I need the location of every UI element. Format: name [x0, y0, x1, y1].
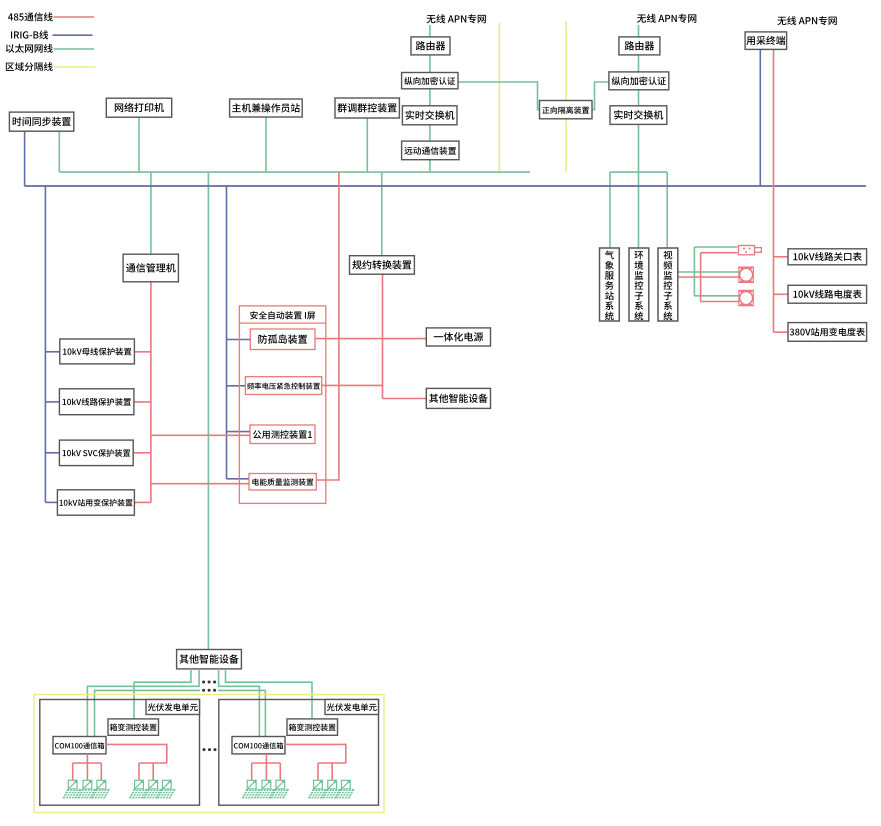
wire red 防孤岛装置 to rail — [315, 338, 383, 340]
wire green crossing line left — [95, 690, 201, 736]
box 10kV站用变保护装置 — [57, 490, 134, 515]
wire red rail to 一体化电源 — [383, 338, 427, 340]
wire red branch to 380V站用变电度表 — [774, 331, 789, 333]
wire red 通信管理机 rail — [150, 282, 152, 503]
wire red drop to inverter 1-1 — [72, 763, 74, 780]
wire green drop to 视频监控子系统 — [666, 172, 668, 248]
box 气象服务站系统 (vertical text) — [600, 248, 620, 321]
box 380V站用变电度表 — [788, 323, 867, 342]
ellipsis dots below 其他智能设备 row1 — [202, 681, 216, 684]
wire green drop to 气象服务站系统 — [609, 172, 611, 248]
wire blue branch to 防孤岛装置 — [227, 339, 251, 341]
icon PV inverter 1-1 — [63, 780, 82, 798]
wire red COM100-2 to inverter group2 — [285, 744, 346, 763]
zone divider yellow vertical 2 — [565, 21, 567, 172]
wire blue drop from 用采终端 — [759, 49, 761, 186]
label 无线APN专网 column1 — [427, 14, 486, 23]
ellipsis dots below 其他智能设备 row2 — [202, 689, 216, 692]
wire red inverter group2 header 2 — [318, 762, 346, 764]
icon PV inverter 2-5 — [322, 780, 341, 798]
panel 安全自动装置I屏 outer box — [239, 306, 325, 504]
box 实时交换机 column1 — [402, 106, 457, 125]
legend line IRIG-B (blue) — [53, 34, 93, 36]
label 无线APN专网 metering — [777, 16, 836, 25]
box 远动通信装置 — [402, 141, 459, 160]
icon dome camera 2 (red) — [739, 290, 753, 305]
box 网络打印机 — [106, 98, 171, 117]
zone divider yellow vertical 1 — [498, 23, 500, 172]
box 实时交换机 column2 — [610, 106, 667, 125]
wire green bus right segment — [610, 171, 667, 173]
box 通信管理机 — [123, 254, 178, 282]
wire red drop to inverter 1-5 — [152, 763, 154, 780]
legend text 485通信线 — [8, 12, 53, 21]
label 无线APN专网 column2 — [637, 14, 696, 23]
box COM100通信箱 1 — [53, 737, 106, 754]
wire green fan stub1 — [134, 669, 191, 719]
wire green fan stub3 — [219, 669, 260, 737]
wire green APN1 router to 纵向加密认证 — [429, 55, 431, 73]
wire red branch to 10kV线路保护装置 — [134, 401, 151, 403]
box 其他智能设备 right — [426, 388, 490, 408]
wire red drop to inverter 1-3 — [100, 763, 102, 780]
box 公用测控装置1 — [250, 425, 315, 444]
wire blue branch to 公用测控装置1 — [227, 431, 251, 433]
wire red 视频监控 to dome cam 1 — [679, 276, 739, 278]
box 箱变测控装置 2 — [287, 719, 338, 735]
legend text 区域分隔线 — [6, 62, 53, 71]
wire red to dome cam 2 — [701, 301, 739, 303]
box 纵向加密认证 column2 — [609, 72, 669, 90]
box 一体化电源 — [426, 328, 490, 346]
box 10kV SVC保护装置 — [59, 440, 133, 466]
wire red branch to 10kV母线保护装置 — [134, 351, 151, 353]
wire green long drop to 其他智能设备 — [207, 172, 209, 649]
wire red rail to 其他智能设备(right) — [383, 398, 427, 400]
wire blue drop from 时间同步装置 — [24, 131, 26, 186]
wire red COM100-1 to inverter group2 — [106, 744, 167, 763]
wire red COM100-2 to inverter group1 — [265, 754, 267, 763]
wire green bus left segment — [59, 171, 530, 173]
wire blue branch to 10kV线路保护装置 — [45, 401, 59, 403]
wire red 频率电压紧急控制装置 to rail — [322, 384, 383, 386]
wire green 纵向加密认证1 to 正向隔离装置 — [458, 82, 540, 110]
wire red branch to 10kV SVC保护装置 — [133, 452, 151, 454]
box 10kV母线保护装置 — [60, 339, 135, 364]
wire green drop from 群调群控装置 — [366, 118, 368, 172]
icon PV inverter 1-3 — [91, 780, 110, 798]
icon PV inverter 1-5 — [143, 780, 162, 798]
wire blue branch to 10kV母线保护装置 — [45, 351, 59, 353]
wire green crossing line right — [218, 690, 265, 736]
wire red branch to 10kV站用变保护装置 — [134, 501, 151, 503]
wire blue branch to 电能质量监测装置 — [227, 478, 250, 480]
icon PV inverter 2-6 — [336, 780, 355, 798]
wire red 规约转换装置 rail — [382, 274, 384, 398]
box 规约转换装置 — [350, 256, 415, 275]
box 光伏发电单元 unit2 — [219, 700, 379, 806]
wire green APN1 实时交换机 to 远动通信装置 — [429, 125, 431, 141]
icon PV inverter 1-2 — [77, 780, 96, 798]
wire red drop from bus to 电能质量监测装置 right — [316, 172, 339, 480]
wire green drop from 主机兼操作员站 — [265, 118, 267, 173]
box 箱变测控装置 1 — [108, 719, 159, 735]
wire red drop to inverter 2-5 — [331, 763, 333, 780]
wire red drop to inverter 2-1 — [251, 763, 253, 780]
yellow zone enclosure box — [34, 695, 384, 813]
box 其他智能设备 bottom — [177, 650, 242, 669]
icon PV inverter 1-4 — [129, 780, 148, 798]
wire green APN1 antenna to router — [429, 25, 431, 37]
box 防孤岛装置 — [250, 329, 315, 350]
box 光伏发电单元 unit1 — [40, 700, 200, 806]
legend line 485 (red) — [54, 16, 95, 18]
box 主机兼操作员站 — [230, 99, 303, 117]
box 纵向加密认证 column1 — [402, 73, 458, 89]
wire red drop to inverter 2-4 — [317, 763, 319, 780]
box 10kV线路关口表 — [788, 249, 867, 265]
box 路由器 column1 — [411, 37, 450, 55]
wire red branch to 电能质量监测装置 — [151, 483, 249, 485]
wire green to webcam — [694, 246, 737, 248]
box 群调群控装置 — [335, 98, 399, 118]
box 正向隔离装置 — [540, 101, 593, 119]
wire red branch to 公用测控装置1 — [151, 434, 250, 436]
legend line zone divider (yellow) — [54, 66, 96, 68]
icon PV inverter 1-6 — [157, 780, 176, 798]
icon webcam (red) — [739, 246, 762, 255]
wire red to webcam — [701, 252, 738, 254]
box 10kV线路保护装置 — [59, 389, 133, 415]
wire red inverter group1 header 2 — [252, 762, 281, 764]
ellipsis dots between PV units — [203, 748, 217, 751]
wire blue bus — [25, 185, 866, 187]
wire green drop from 时间同步装置 — [58, 131, 60, 172]
wire green camera riser — [693, 247, 695, 296]
wire green drop from 远动通信装置 — [429, 160, 431, 172]
icon PV inverter 2-1 — [242, 780, 261, 798]
box 频率电压紧急控制装置 — [245, 377, 321, 395]
wire red COM100-1 to inverter group1 — [86, 754, 88, 763]
icon PV inverter 2-2 — [256, 780, 275, 798]
wire green fan stub4 — [226, 669, 313, 718]
box 10kV线路电度表 — [788, 285, 867, 303]
legend line ethernet (green) — [54, 48, 95, 50]
wire blue branch to 频率电压紧急控制装置 — [227, 385, 246, 387]
wire blue mid rail — [226, 186, 228, 479]
box 用采终端 — [745, 32, 787, 50]
legend text 以太网网线 — [6, 44, 53, 53]
wire red drop to inverter 2-2 — [265, 763, 267, 780]
wire green APN2 antenna to router — [638, 25, 640, 37]
label box 光伏发电单元 2 — [325, 700, 379, 715]
box 视频监控子系统 (vertical text) — [658, 248, 678, 321]
wire red branch to 10kV线路关口表 — [774, 256, 789, 258]
wire green APN2 纵向加密认证 to 实时交换机 — [638, 90, 640, 106]
wire red branch to 10kV线路电度表 — [774, 293, 789, 295]
box 电能质量监测装置 — [249, 474, 316, 491]
wire red drop to inverter 1-2 — [86, 763, 88, 780]
wire red camera riser — [700, 253, 702, 302]
wire red inverter group1 header 1 — [73, 762, 102, 764]
wire green 视频监控 to dome cam 1 — [679, 271, 739, 273]
wire red drop to inverter 2-3 — [279, 763, 281, 780]
legend text IRIG-B线 — [11, 30, 48, 39]
wire green APN1 纵向加密认证 to 实时交换机 — [429, 89, 431, 106]
wire blue left rail — [44, 186, 46, 502]
icon dome camera 1 (red) — [739, 267, 753, 282]
wire green feed to 通信管理机 — [150, 172, 152, 254]
box COM100通信箱 2 — [232, 737, 285, 754]
wire green drop from 网络打印机 — [138, 117, 140, 172]
label box 光伏发电单元 1 — [146, 700, 200, 715]
box 路由器 column2 — [619, 37, 660, 55]
icon PV inverter 2-3 — [270, 780, 289, 798]
wire green APN2 router to 纵向加密认证 — [638, 55, 640, 72]
wire blue branch to 10kV SVC保护装置 — [45, 452, 59, 454]
wire blue branch to 10kV站用变保护装置 — [45, 501, 57, 503]
wire green fan stub2 — [87, 669, 199, 737]
wire red inverter group2 header 1 — [139, 762, 167, 764]
box 环境监控子系统 (vertical text) — [629, 248, 649, 321]
wire green APN2 实时交换机 down to monitoring — [638, 124, 640, 248]
wire red metering rail — [773, 49, 775, 332]
wire green to dome cam 2 — [694, 295, 738, 297]
wire green feed to 规约转换装置 — [381, 172, 383, 256]
box 时间同步装置 — [9, 112, 73, 131]
wire green 正向隔离装置 to 纵向加密认证2 — [592, 82, 609, 110]
icon PV inverter 2-4 — [308, 780, 327, 798]
wire red drop to inverter 1-4 — [138, 763, 140, 780]
